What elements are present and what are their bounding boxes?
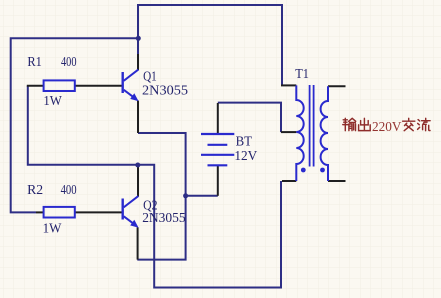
svg-text:400: 400 [61,183,77,198]
svg-text:R1: R1 [27,55,42,70]
svg-text:R2: R2 [27,183,43,198]
svg-text:2N3055: 2N3055 [142,84,188,99]
svg-text:12V: 12V [234,149,257,164]
svg-text:220V: 220V [372,120,402,135]
svg-text:1W: 1W [43,94,62,109]
svg-text:2N3055: 2N3055 [142,211,186,226]
svg-text:T1: T1 [295,67,309,82]
svg-text:BT: BT [236,135,253,150]
svg-text:Q1: Q1 [143,70,157,85]
svg-text:400: 400 [61,55,77,70]
svg-text:1W: 1W [43,222,63,237]
